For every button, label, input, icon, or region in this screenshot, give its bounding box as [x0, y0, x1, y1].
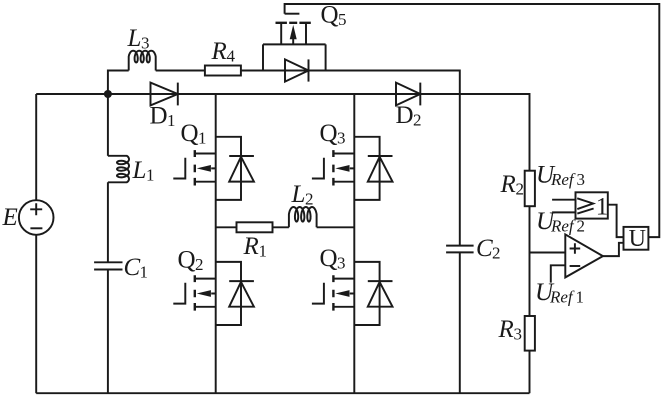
svg-text:2: 2	[195, 255, 204, 274]
label URef3	[536, 162, 585, 190]
wire: bottom bus	[36, 392, 529, 394]
svg-text:2: 2	[577, 217, 586, 236]
svg-text:5: 5	[338, 10, 347, 29]
label D2	[396, 102, 422, 130]
diode (Q2 antiparallel)	[216, 262, 254, 325]
wire: C1 to bottom bus	[107, 270, 109, 394]
transistor Q3 (lower right)	[312, 275, 354, 310]
node: junction dot at L1/L3 tap	[104, 90, 112, 98]
svg-text:4: 4	[227, 47, 236, 66]
svg-text:L: L	[132, 157, 147, 184]
wire: L2 to right leg	[317, 226, 355, 228]
svg-text:3: 3	[577, 170, 586, 189]
svg-text:Ref: Ref	[550, 170, 576, 189]
wire: Q5 diode cathode right then down to C2	[309, 71, 460, 246]
resistor R3	[525, 316, 535, 351]
diode (Q1 antiparallel)	[216, 137, 254, 200]
wire: R2 down through feedback node to R3	[529, 206, 531, 316]
svg-text:3: 3	[514, 325, 523, 344]
diode (upper Q3 antiparallel)	[354, 137, 392, 200]
label R2	[500, 171, 525, 199]
wire: L3 to R4	[156, 70, 205, 72]
svg-text:R: R	[211, 38, 227, 65]
capacitor C2	[446, 246, 474, 253]
svg-text:R: R	[500, 171, 516, 198]
svg-text:1: 1	[198, 129, 207, 148]
svg-text:C: C	[476, 235, 493, 262]
label URef1	[535, 279, 584, 307]
transistor Q5	[263, 14, 326, 71]
wire: R4 to Q5 bypass diode anode	[241, 70, 309, 72]
resistor R1	[237, 222, 273, 232]
diode (Q5 antiparallel)	[285, 59, 309, 81]
svg-text:Q: Q	[320, 120, 338, 147]
svg-text:Ref: Ref	[549, 288, 575, 307]
wire: U block output feedback up and across to Q5 gate	[285, 4, 660, 237]
svg-text:1: 1	[140, 263, 149, 282]
svg-text:2: 2	[305, 190, 314, 209]
svg-text:Q: Q	[320, 245, 338, 272]
transistor Q2	[173, 275, 215, 310]
block U (output driver)	[624, 226, 649, 252]
inductor L3	[129, 51, 156, 71]
svg-text:L: L	[291, 181, 306, 208]
label L2	[291, 181, 314, 209]
resistor R2	[525, 171, 535, 207]
wire: left rail from top bus corner down to E source	[35, 94, 37, 200]
svg-text:Q: Q	[181, 120, 199, 147]
voltage source E	[19, 200, 54, 235]
wire: comparator minus input stub (URef1)	[551, 265, 566, 282]
svg-text:3: 3	[337, 129, 346, 148]
svg-text:R: R	[243, 233, 259, 260]
wire: bus from D2 cathode right and down to R2	[420, 94, 529, 171]
diode D1	[151, 83, 178, 106]
wire: right bridge leg	[353, 94, 355, 393]
svg-text:C: C	[124, 254, 141, 281]
wire: feedback node to comparator plus input	[530, 252, 566, 254]
wire: comparator output to U block	[603, 243, 624, 256]
diode D2	[396, 83, 420, 106]
label D1	[150, 103, 176, 131]
wire: L1 to C1	[107, 182, 109, 262]
svg-text:1: 1	[596, 193, 609, 220]
transistor Q3 (upper right)	[312, 150, 354, 185]
OR gate	[576, 192, 609, 220]
label Q3 (lower)	[320, 245, 346, 273]
wire: bus from D1 cathode to D2 anode	[178, 93, 420, 95]
label R4	[211, 38, 236, 66]
svg-text:2: 2	[413, 111, 422, 130]
label Q1	[181, 120, 207, 148]
svg-text:1: 1	[576, 288, 585, 307]
label R3	[498, 316, 523, 344]
wire: left leg load node to R1	[216, 226, 237, 228]
svg-text:D: D	[150, 103, 168, 130]
label R1	[243, 233, 268, 261]
wire: left rail from E source to bottom bus	[35, 235, 37, 393]
label C1	[124, 254, 149, 282]
svg-text:3: 3	[337, 254, 346, 273]
wire: OR gate input stub (URef2)	[552, 211, 575, 213]
svg-text:Q: Q	[321, 2, 339, 29]
svg-text:1: 1	[259, 242, 268, 261]
svg-text:3: 3	[141, 34, 150, 53]
wire: left bridge leg	[215, 94, 217, 393]
label URef2	[536, 208, 585, 236]
inductor L2	[289, 207, 317, 227]
diode (lower Q3 antiparallel)	[354, 262, 392, 325]
op-amp comparator U1	[565, 234, 603, 277]
wire: OR gate output to U block	[608, 205, 624, 237]
wire: riser from junction dot up to L3	[108, 71, 129, 95]
label C2	[476, 235, 501, 263]
svg-text:2: 2	[492, 244, 501, 263]
svg-text:D: D	[396, 102, 414, 129]
label Q3 (upper)	[320, 120, 346, 148]
label Q5	[321, 2, 347, 30]
svg-text:1: 1	[146, 166, 155, 185]
svg-text:U: U	[629, 226, 646, 252]
svg-text:R: R	[498, 316, 514, 343]
label L1	[132, 157, 155, 185]
capacitor C1	[94, 262, 122, 269]
label Q2	[178, 247, 204, 275]
inductor L1	[108, 156, 129, 183]
resistor R4	[205, 66, 241, 76]
svg-text:2: 2	[516, 180, 525, 199]
wire: C2 to bottom bus	[459, 252, 461, 393]
transistor Q1	[173, 150, 215, 185]
wire: R1 to L2	[273, 226, 289, 228]
svg-text:E: E	[2, 204, 18, 231]
svg-text:1: 1	[167, 111, 176, 130]
wire: top bus left segment to D1 anode	[36, 93, 178, 95]
label L3	[127, 25, 150, 53]
svg-text:Ref: Ref	[550, 217, 576, 236]
wire: R3 to bottom bus	[529, 351, 531, 394]
svg-text:L: L	[127, 25, 142, 52]
wire: junction dot down to L1	[107, 94, 109, 156]
wire: OR gate input stub (URef3)	[552, 199, 575, 201]
svg-text:Q: Q	[178, 247, 196, 274]
